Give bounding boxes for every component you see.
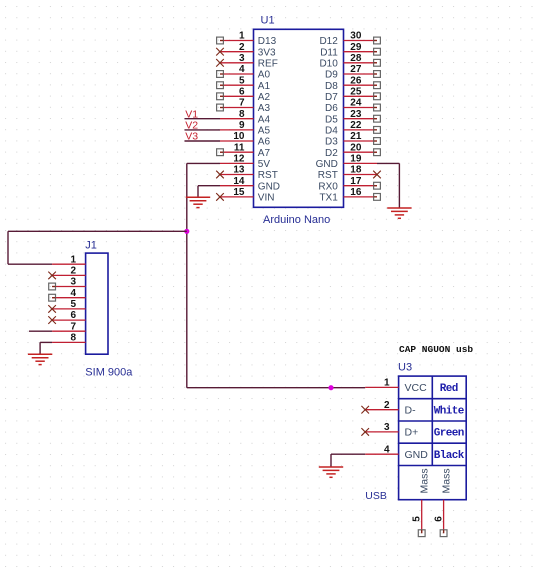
svg-text:A6: A6: [258, 137, 271, 148]
svg-text:18: 18: [350, 165, 362, 176]
J1 pin 8 lead: [52, 341, 86, 343]
U1 pin 16 TX1 lead: [344, 196, 378, 198]
U1 pin 27 unconnected square terminal: [374, 71, 381, 78]
U1 pin 25 D7 lead: [344, 95, 378, 97]
U3 pin 2 lead: [365, 409, 398, 411]
svg-text:11: 11: [234, 142, 245, 153]
J1 pin 4 unconnected square terminal: [49, 294, 56, 301]
U1 pin 2 no-connect X: [216, 48, 224, 56]
svg-text:Red: Red: [440, 383, 458, 395]
svg-text:D4: D4: [325, 126, 338, 137]
U1 pin 25 unconnected square terminal: [374, 93, 381, 100]
connector J1 body: [86, 253, 108, 354]
svg-text:D12: D12: [319, 36, 338, 47]
U1 pin 2 3V3 lead: [220, 51, 254, 53]
svg-text:10: 10: [233, 131, 245, 142]
U1 pin 5 A1 lead: [220, 84, 254, 86]
svg-text:1: 1: [70, 254, 76, 265]
wire net V2 to U1 pin 9: [185, 129, 221, 131]
U1 pin 28 unconnected square terminal: [374, 59, 381, 66]
svg-text:8: 8: [70, 333, 76, 344]
svg-text:6: 6: [239, 87, 245, 98]
J1 pin 2 lead: [52, 274, 86, 276]
ground symbol at U1 pin 14: [186, 197, 210, 207]
U3 pin 6 unconnected square terminal: [440, 530, 447, 537]
wire J1 pin 8 to ground horizontal: [40, 341, 52, 343]
svg-text:D8: D8: [325, 81, 338, 92]
svg-text:D11: D11: [320, 47, 338, 58]
U1 pin 3 no-connect X: [216, 59, 224, 67]
U1 pin 22 D4 lead: [344, 129, 378, 131]
J1 pin 1 lead: [52, 263, 86, 265]
svg-text:17: 17: [350, 176, 362, 187]
svg-text:GND: GND: [316, 159, 338, 170]
U1 pin 6 unconnected square terminal: [217, 93, 224, 100]
U1 pin 26 D8 lead: [344, 84, 378, 86]
svg-text:VCC: VCC: [405, 382, 428, 394]
svg-text:12: 12: [233, 154, 245, 165]
U1 pin 17 unconnected square terminal: [374, 182, 381, 189]
U1 pin 19 GND lead: [344, 162, 378, 164]
ground symbol at J1 pin 8: [28, 354, 52, 364]
svg-text:A1: A1: [258, 81, 271, 92]
svg-text:D10: D10: [319, 58, 338, 69]
svg-text:2: 2: [239, 42, 245, 53]
svg-text:2: 2: [70, 266, 76, 277]
wire net V3 to U1 pin 10: [185, 140, 221, 142]
svg-text:A3: A3: [258, 103, 271, 114]
U3 pin 6 lead (bottom): [443, 500, 445, 534]
U1 pin 21 D3 lead: [344, 140, 378, 142]
svg-text:15: 15: [233, 187, 245, 198]
U1 pin 18 no-connect X: [373, 171, 381, 179]
svg-text:13: 13: [233, 165, 245, 176]
svg-text:29: 29: [350, 42, 362, 53]
ground symbol at U1 pin 19: [387, 208, 411, 218]
svg-text:5: 5: [70, 299, 76, 310]
wire U3 pin 4 GND stub down: [330, 454, 332, 467]
U3 internal row divider 4: [399, 465, 467, 467]
wire U1 pin 12 5V horizontal: [187, 162, 220, 164]
U3 pin 4 lead: [365, 453, 398, 455]
svg-text:Mass: Mass: [441, 468, 453, 493]
wire branch to J1 pin 1 horizontal: [8, 263, 52, 265]
wire 5V horizontal to USB VCC: [187, 387, 365, 389]
svg-text:VIN: VIN: [258, 193, 275, 204]
junction node 5V / J1 branch: [184, 229, 189, 234]
svg-text:REF: REF: [258, 58, 278, 69]
wire U1 pin 19 GND horizontal: [377, 162, 399, 164]
wire J1 pin 8 ground stub down: [39, 342, 41, 354]
U3 internal row divider 1: [399, 398, 467, 400]
U3 internal row divider 2: [399, 420, 467, 422]
U3 pin 5 unconnected square terminal: [418, 530, 425, 537]
svg-text:6: 6: [434, 516, 445, 522]
J1 pin 7 lead: [52, 330, 86, 332]
svg-text:8: 8: [239, 109, 245, 120]
U1 pin 18 RST lead: [344, 174, 378, 176]
U1 pin 9 A5 lead: [220, 129, 254, 131]
svg-text:D2: D2: [325, 148, 338, 159]
svg-text:2: 2: [384, 400, 390, 411]
svg-text:D6: D6: [325, 103, 338, 114]
wire 5V vertical trunk: [186, 163, 188, 387]
U1 pin 15 VIN lead: [220, 196, 254, 198]
svg-text:RST: RST: [318, 170, 338, 181]
svg-text:Arduino Nano: Arduino Nano: [263, 214, 330, 226]
svg-text:A0: A0: [258, 70, 271, 81]
wire U1 pin 14 GND stub down: [197, 186, 199, 198]
J1 pin 5 no-connect X: [48, 305, 56, 313]
U1 pin 30 D12 lead: [344, 40, 378, 42]
svg-text:Green: Green: [434, 428, 464, 440]
U1 pin 26 unconnected square terminal: [374, 82, 381, 89]
svg-text:7: 7: [239, 98, 245, 109]
U1 pin 14 GND lead: [220, 185, 254, 187]
svg-text:6: 6: [70, 310, 76, 321]
svg-text:4: 4: [384, 444, 390, 455]
J1 pin 3 unconnected square terminal: [49, 283, 56, 290]
U1 pin 29 D11 lead: [344, 51, 378, 53]
svg-text:4: 4: [70, 288, 76, 299]
U1 pin 13 no-connect X: [216, 171, 224, 179]
wire branch to J1: horizontal at y=231: [8, 230, 187, 232]
U1 pin 13 RST lead: [220, 174, 254, 176]
U1 pin 4 unconnected square terminal: [217, 71, 224, 78]
svg-text:22: 22: [350, 120, 362, 131]
svg-text:4: 4: [239, 64, 245, 75]
svg-text:White: White: [434, 406, 465, 418]
U1 pin 24 D6 lead: [344, 107, 378, 109]
U1 pin 15 no-connect X: [216, 193, 224, 201]
svg-text:USB: USB: [365, 490, 387, 502]
svg-text:U1: U1: [261, 15, 275, 27]
U1 pin 23 D5 lead: [344, 118, 378, 120]
U1 pin 7 A3 lead: [220, 107, 254, 109]
svg-text:5: 5: [412, 516, 423, 522]
U1 pin 3 REF lead: [220, 62, 254, 64]
svg-text:TX1: TX1: [319, 193, 338, 204]
svg-text:19: 19: [350, 154, 362, 165]
svg-text:D3: D3: [325, 137, 338, 148]
svg-text:D5: D5: [325, 114, 338, 125]
svg-text:24: 24: [350, 98, 362, 109]
U1 pin 20 D2 lead: [344, 151, 378, 153]
U1 pin 12 5V lead: [220, 162, 254, 164]
U3 internal vertical divider: [431, 376, 433, 465]
wire stub at J1 pin 7: [29, 330, 52, 332]
wire U1 pin 19 GND vertical: [398, 163, 400, 208]
U1 pin 24 unconnected square terminal: [374, 104, 381, 111]
svg-text:D7: D7: [325, 92, 338, 103]
svg-text:26: 26: [350, 75, 362, 86]
svg-text:A7: A7: [258, 148, 271, 159]
svg-text:3V3: 3V3: [258, 47, 276, 58]
U1 pin 5 unconnected square terminal: [217, 82, 224, 89]
J1 pin 5 lead: [52, 308, 86, 310]
svg-text:Mass: Mass: [419, 468, 431, 493]
op-amp U1 body: Arduino Nano rectangle: [254, 29, 344, 207]
svg-text:20: 20: [350, 142, 362, 153]
svg-text:27: 27: [350, 64, 362, 75]
U3 pin 5 lead (bottom): [421, 500, 423, 534]
U1 pin 1 D13 lead: [220, 40, 254, 42]
wire U3 pin 4 GND horizontal: [331, 453, 365, 455]
svg-text:5: 5: [239, 75, 245, 86]
svg-text:D+: D+: [405, 427, 419, 439]
svg-text:16: 16: [350, 187, 362, 198]
wire branch to J1: vertical at x=8: [7, 231, 9, 264]
U1 pin 20 unconnected square terminal: [374, 149, 381, 156]
U1 pin 23 unconnected square terminal: [374, 115, 381, 122]
svg-text:GND: GND: [405, 449, 429, 461]
U1 pin 28 D10 lead: [344, 62, 378, 64]
svg-text:25: 25: [350, 87, 362, 98]
svg-text:A5: A5: [258, 126, 271, 137]
J1 pin 2 no-connect X: [48, 272, 56, 280]
wire net V1 to U1 pin 8: [185, 118, 221, 120]
U1 pin 6 A2 lead: [220, 95, 254, 97]
U3 pin 3 lead: [365, 431, 398, 433]
svg-text:3: 3: [384, 422, 390, 433]
svg-text:SIM 900a: SIM 900a: [85, 367, 133, 379]
U1 pin 1 unconnected square terminal: [217, 37, 224, 44]
svg-text:D-: D-: [405, 404, 417, 416]
U1 pin 17 RX0 lead: [344, 185, 378, 187]
U1 pin 4 A0 lead: [220, 73, 254, 75]
svg-text:D9: D9: [325, 70, 338, 81]
svg-text:23: 23: [350, 109, 362, 120]
U3 pin 2 no-connect X: [361, 406, 369, 414]
U3 internal row divider 3: [399, 442, 467, 444]
svg-text:3: 3: [239, 53, 245, 64]
J1 pin 6 lead: [52, 319, 86, 321]
J1 pin 4 lead: [52, 297, 86, 299]
svg-text:RST: RST: [258, 170, 278, 181]
svg-text:30: 30: [350, 31, 362, 42]
svg-text:5V: 5V: [258, 159, 271, 170]
J1 pin 6 no-connect X: [48, 316, 56, 324]
junction node on VCC wire: [328, 385, 333, 390]
svg-text:J1: J1: [85, 239, 97, 251]
U1 pin 11 unconnected square terminal: [217, 149, 224, 156]
U1 pin 22 unconnected square terminal: [374, 127, 381, 134]
svg-text:7: 7: [70, 321, 76, 332]
svg-text:21: 21: [350, 131, 362, 142]
svg-text:1: 1: [384, 378, 390, 389]
svg-text:A4: A4: [258, 114, 271, 125]
svg-text:1: 1: [239, 31, 245, 42]
ground symbol at U3 pin 4: [319, 467, 343, 477]
svg-text:RX0: RX0: [318, 181, 338, 192]
svg-text:28: 28: [350, 53, 362, 64]
svg-text:A2: A2: [258, 92, 271, 103]
U1 pin 29 unconnected square terminal: [374, 48, 381, 55]
svg-text:9: 9: [239, 120, 245, 131]
U3 pin 1 lead: [365, 386, 398, 388]
U1 pin 11 A7 lead: [220, 151, 254, 153]
U1 pin 30 unconnected square terminal: [374, 37, 381, 44]
U1 pin 16 unconnected square terminal: [374, 194, 381, 201]
wire U1 pin 14 GND horizontal: [198, 185, 220, 187]
svg-text:D13: D13: [258, 36, 277, 47]
U1 pin 8 A4 lead: [220, 118, 254, 120]
U1 pin 10 A6 lead: [220, 140, 254, 142]
U1 pin 27 D9 lead: [344, 73, 378, 75]
U1 pin 7 unconnected square terminal: [217, 104, 224, 111]
svg-text:Black: Black: [434, 450, 465, 462]
USB connector U3 body: [399, 376, 467, 500]
svg-text:CAP NGUON usb: CAP NGUON usb: [399, 344, 473, 355]
U3 pin 3 no-connect X: [361, 428, 369, 436]
J1 pin 3 lead: [52, 286, 86, 288]
svg-text:14: 14: [233, 176, 245, 187]
svg-text:3: 3: [70, 277, 76, 288]
svg-text:U3: U3: [398, 362, 412, 374]
svg-text:GND: GND: [258, 181, 280, 192]
U1 pin 21 unconnected square terminal: [374, 138, 381, 145]
